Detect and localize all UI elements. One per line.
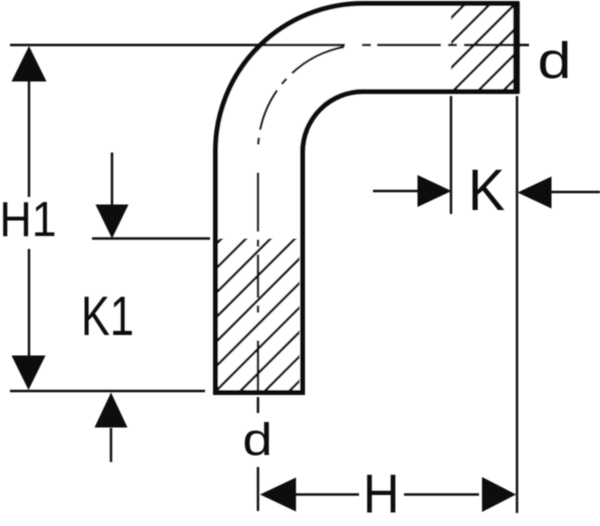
svg-text:K: K [468,158,505,223]
svg-text:d: d [538,32,572,89]
svg-text:K1: K1 [81,284,134,347]
svg-text:H1: H1 [0,193,57,247]
svg-text:d: d [243,414,273,465]
svg-text:H: H [363,463,400,525]
